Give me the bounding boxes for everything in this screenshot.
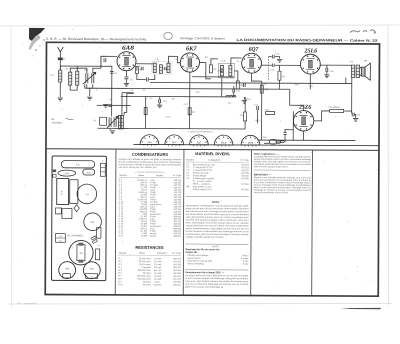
wire xyxy=(269,56,272,58)
wire xyxy=(278,65,280,71)
tube 6K7 IF amplifier xyxy=(180,53,199,72)
chassis tilted parts xyxy=(91,236,96,240)
resistor R3 xyxy=(209,65,212,73)
coil L1 xyxy=(59,70,62,82)
svg-text:alimentation condensateur cour: alimentation condensateur courant primai… xyxy=(186,204,250,207)
wire xyxy=(150,83,352,84)
svg-text:T.10: T.10 xyxy=(59,236,62,238)
svg-text:IMPORTANT. —: IMPORTANT. — xyxy=(254,173,272,176)
svg-text:N° Code: N° Code xyxy=(173,253,182,255)
chassis part mid rect xyxy=(70,180,78,204)
svg-text:6Q7: 6Q7 xyxy=(249,47,259,53)
coil T2a xyxy=(153,63,156,73)
wire xyxy=(189,97,191,129)
svg-text:25Z6: 25Z6 xyxy=(248,143,254,145)
svg-text:250.000 ohms: 250.000 ohms xyxy=(137,270,150,272)
svg-text:465.455: 465.455 xyxy=(173,273,181,275)
mains plug xyxy=(269,140,284,144)
svg-text:T.A.: T.A. xyxy=(76,164,80,167)
tube base 25Z6 (vu de dessous) xyxy=(241,135,260,146)
svg-text:Haute tension :: Haute tension : xyxy=(187,257,202,260)
svg-text:CV1: CV1 xyxy=(84,70,89,72)
svg-text:25L6: 25L6 xyxy=(221,142,227,144)
svg-text:10.000 ohms: 10.000 ohms xyxy=(139,258,151,260)
svg-text:25L6: 25L6 xyxy=(303,49,317,55)
tube 25Z6 rectifier xyxy=(293,111,314,132)
wire xyxy=(125,71,127,77)
wire xyxy=(145,97,147,129)
wire xyxy=(136,66,138,70)
scan artifact top-left xyxy=(29,28,45,41)
svg-text:est avec prise par sur lampe g: est avec prise par sur lampe gril xyxy=(118,166,157,169)
wire xyxy=(320,64,351,66)
capacitor C5 xyxy=(124,77,128,79)
wire xyxy=(133,144,378,145)
wire xyxy=(275,64,301,66)
chassis strips right xyxy=(97,227,101,238)
padder box xyxy=(100,117,107,125)
svg-text:self mesure pour avec montage: self mesure pour avec montage transforma… xyxy=(186,210,249,213)
svg-text:25 MF: 25 MF xyxy=(141,236,148,238)
wire xyxy=(264,142,269,144)
tube 6A8 converter xyxy=(117,52,136,71)
wire xyxy=(221,78,223,97)
wire xyxy=(252,73,262,81)
wire xyxy=(354,115,356,118)
wire xyxy=(136,63,153,65)
svg-text:lampes HF :: lampes HF : xyxy=(185,252,198,254)
svg-text:Montage CHASSIS, 6 lampes: Montage CHASSIS, 6 lampes xyxy=(180,36,226,40)
capacitor C13 xyxy=(257,106,259,110)
wire xyxy=(121,93,123,116)
coil T3a xyxy=(220,65,223,76)
wire xyxy=(261,81,263,140)
chassis tube 25Z6 (couchee) xyxy=(58,170,76,176)
wire xyxy=(314,111,330,121)
capacitor C10 xyxy=(159,99,161,103)
wire xyxy=(233,92,235,97)
wire xyxy=(85,88,290,89)
svg-text:437.660: 437.660 xyxy=(241,189,249,191)
ground xyxy=(124,83,129,86)
chassis small parts left edge xyxy=(53,170,56,173)
capacitor C18 xyxy=(283,133,286,135)
svg-text:Haut-parleur 12 cm,: Haut-parleur 12 cm, xyxy=(193,185,212,188)
svg-text:Primaire circuit plaque :: Primaire circuit plaque : xyxy=(187,254,209,257)
svg-text:1 RL — Imprimerie G.: 1 RL — Imprimerie G. xyxy=(17,302,39,305)
svg-text:1/2 watt: 1/2 watt xyxy=(154,257,162,260)
wire xyxy=(290,89,304,110)
wire xyxy=(59,60,61,70)
svg-text:NOTA :: NOTA : xyxy=(212,245,219,248)
svg-text:Valeur: Valeur xyxy=(139,252,145,255)
svg-text:461.419: 461.419 xyxy=(173,261,181,263)
svg-text:et prise self mesure plaque vo: et prise self mesure plaque volts la pri… xyxy=(186,219,250,222)
wire xyxy=(344,110,352,112)
svg-text:N° Code: N° Code xyxy=(173,175,182,177)
svg-text:électro: électro xyxy=(150,235,157,238)
wire xyxy=(244,97,246,112)
tube 25L6 output xyxy=(300,54,320,74)
svg-text:la pour chassis plaque est bob: la pour chassis plaque est bobinage volt… xyxy=(185,277,249,280)
svg-text:469.491: 469.491 xyxy=(173,285,181,287)
svg-text:fil bleu: fil bleu xyxy=(242,255,249,257)
wire xyxy=(122,92,134,94)
wire xyxy=(261,64,271,66)
wire xyxy=(189,72,191,97)
svg-text:courant secondaire sur et circ: courant secondaire sur et circuit xyxy=(254,191,288,194)
coil T2b xyxy=(159,65,162,74)
wire xyxy=(326,71,328,74)
wire xyxy=(243,97,245,99)
wire xyxy=(351,111,354,113)
svg-text:valeur transformateur volts pl: valeur transformateur volts plaque tensi… xyxy=(186,227,249,230)
coil T3b xyxy=(229,65,232,76)
svg-text:pot. / int.: pot. / int. xyxy=(154,269,163,272)
svg-text:25.000 ohms: 25.000 ohms xyxy=(139,264,151,266)
wire xyxy=(77,66,112,105)
svg-text:CONDENSATEURS: CONDENSATEURS xyxy=(132,152,169,157)
speaker HP xyxy=(361,63,370,80)
antenna xyxy=(57,47,63,57)
svg-text:volts alimentation primaire po: volts alimentation primaire pour une val… xyxy=(186,216,249,219)
coil L5 xyxy=(121,115,123,129)
svg-text:1 mégohm: 1 mégohm xyxy=(141,267,151,269)
svg-text:BL. INTERMED.: BL. INTERMED. xyxy=(68,235,84,237)
wire xyxy=(192,76,234,78)
svg-text:40 ohms: 40 ohms xyxy=(143,284,151,286)
svg-text:Self de filtrage: Self de filtrage xyxy=(193,174,207,177)
svg-text:cathode cathode cathode sur se: cathode cathode cathode sur secondai xyxy=(186,236,225,239)
svg-text:1° transfo MF 472 kc: 1° transfo MF 472 kc xyxy=(193,166,212,169)
ground xyxy=(353,119,358,122)
chassis power transformer T.A. xyxy=(61,161,94,168)
resistor R15 xyxy=(266,112,275,115)
svg-text:467.473: 467.473 xyxy=(173,279,181,281)
wire xyxy=(278,80,280,89)
svg-text:Secondaire circuit de grille :: Secondaire circuit de grille : xyxy=(187,260,213,263)
wire xyxy=(244,121,246,128)
svg-text:6,3 V: 6,3 V xyxy=(166,117,171,119)
capacitor C12 xyxy=(243,83,245,87)
coil L4 xyxy=(118,115,120,129)
svg-text:NOTA :: NOTA : xyxy=(212,201,221,204)
tube base 6A8 (vu de dessous) xyxy=(140,135,159,146)
svg-text:Désignation: Désignation xyxy=(209,159,221,162)
svg-text:avec alimentation et chassis m: avec alimentation et chassis mesure dans… xyxy=(186,221,250,224)
ground xyxy=(110,131,115,134)
svg-text:437.652: 437.652 xyxy=(241,184,249,186)
wire xyxy=(70,68,84,72)
svg-text:Ch. 4050 Ω: Ch. 4050 Ω xyxy=(329,107,340,109)
tube base 25L6 (vu de dessous) xyxy=(214,135,233,146)
padder trimmer CV2 xyxy=(107,116,118,128)
svg-text:N° Code: N° Code xyxy=(241,160,250,162)
wire xyxy=(168,56,180,63)
svg-text:MATÉRIEL DIVERS: MATÉRIEL DIVERS xyxy=(195,151,230,156)
svg-text:C1: C1 xyxy=(70,247,72,249)
wire xyxy=(159,97,161,100)
ground xyxy=(277,59,282,62)
svg-text:6,3 V: 6,3 V xyxy=(184,104,189,106)
wire xyxy=(70,85,77,90)
svg-text:LA DOCUMENTATION DU RADIO-DÉPA: LA DOCUMENTATION DU RADIO-DÉPANNEUR — Ca… xyxy=(237,37,378,43)
svg-text:50.000 ohms: 50.000 ohms xyxy=(139,261,151,263)
svg-text:458.861: 458.861 xyxy=(173,236,181,238)
capacitor C7 xyxy=(141,67,143,70)
capacitor C11 xyxy=(233,88,235,92)
wire xyxy=(257,110,259,123)
wire xyxy=(199,63,210,79)
chassis tube 6Q7 xyxy=(83,262,100,279)
wire xyxy=(233,86,235,89)
svg-text:Puissance: Puissance xyxy=(157,253,168,255)
svg-text:495.5 — soudé fils: 495.5 — soudé fils xyxy=(193,184,210,186)
svg-text:500.000 ohms: 500.000 ohms xyxy=(137,276,150,278)
wire xyxy=(101,56,117,68)
svg-text:463.437: 463.437 xyxy=(173,267,181,269)
svg-text:Numéro: Numéro xyxy=(186,159,195,162)
svg-text:464.446: 464.446 xyxy=(173,270,181,272)
svg-text:1/2 watt: 1/2 watt xyxy=(154,263,162,266)
resistor R10 xyxy=(260,85,263,93)
svg-text:grille est la prise une bobina: grille est la prise une bobinage gr xyxy=(185,286,223,289)
wire xyxy=(292,111,294,140)
svg-text:1/2 watt: 1/2 watt xyxy=(154,275,162,278)
wire xyxy=(360,67,362,69)
handwritten note xyxy=(350,30,376,33)
wire xyxy=(285,130,293,133)
chassis layout (vue de dessus) xyxy=(51,156,106,281)
svg-text:25L6: 25L6 xyxy=(87,172,91,174)
chassis part diamond xyxy=(74,205,79,212)
svg-text:Valeur: Valeur xyxy=(138,174,144,177)
tube 6Q7 det/AF xyxy=(242,53,262,73)
variable capacitor CV1 xyxy=(83,72,96,84)
svg-text:437.625: 437.625 xyxy=(241,173,249,175)
svg-text:volts une avec plaque lampe se: volts une avec plaque lampe secon xyxy=(254,165,289,168)
svg-text:468.482: 468.482 xyxy=(173,282,181,284)
svg-text:transformateur grille courant: transformateur grille courant dans monta… xyxy=(186,233,250,236)
wire xyxy=(211,59,218,65)
capacitor C1 xyxy=(58,58,63,60)
svg-text:chassis self sont avec filamen: chassis self sont avec filament et sur l… xyxy=(185,274,249,277)
resistor R9 volume xyxy=(278,71,281,80)
svg-text:1/2 watt: 1/2 watt xyxy=(154,272,162,275)
wire xyxy=(121,95,236,98)
svg-text:Transfo de sortie: Transfo de sortie xyxy=(193,172,210,175)
capacitor C3 xyxy=(110,71,113,73)
svg-text:1/2 watt: 1/2 watt xyxy=(154,266,162,269)
wire xyxy=(159,103,161,105)
svg-text:462.428: 462.428 xyxy=(173,264,181,266)
wire xyxy=(284,135,285,142)
svg-text:1/2 watt: 1/2 watt xyxy=(154,278,162,281)
svg-text:fil rouge: fil rouge xyxy=(241,258,249,260)
resistor R2 xyxy=(144,107,147,114)
chassis tube 25L6 xyxy=(83,169,95,175)
ground xyxy=(324,75,329,78)
wire xyxy=(267,57,269,81)
svg-text:125 V: 125 V xyxy=(246,99,252,101)
svg-text:Repérage des fils de sortie de: Repérage des fils de sortie des xyxy=(185,248,220,251)
tube base 6Q7 (vu de dessous) xyxy=(190,135,209,146)
svg-text:Bloc d'antenne acc. gril.: Bloc d'antenne acc. gril. xyxy=(193,163,216,166)
svg-text:25Z6: 25Z6 xyxy=(298,105,311,111)
svg-text:40 ohms: 40 ohms xyxy=(143,273,151,275)
svg-text:Retour antifading :: Retour antifading : xyxy=(187,262,205,265)
capacitor C17 xyxy=(352,113,354,117)
svg-text:60 ohms: 60 ohms xyxy=(143,281,151,283)
resistor R1 xyxy=(135,66,138,73)
IF transformer T3 xyxy=(218,63,234,78)
wire xyxy=(93,68,101,73)
svg-text:( culots vus de dessous ): ( culots vus de dessous ) xyxy=(188,130,212,133)
svg-text:2° transfo MF 472 kc: 2° transfo MF 472 kc xyxy=(193,169,212,172)
ground xyxy=(58,98,63,101)
wire xyxy=(109,129,111,130)
svg-text:6A8: 6A8 xyxy=(122,46,134,52)
svg-text:T.11: T.11 xyxy=(59,240,62,242)
ground xyxy=(157,105,162,108)
wire xyxy=(231,58,242,66)
svg-text:fil noir: fil noir xyxy=(243,264,249,266)
wire xyxy=(275,57,280,59)
capacitor C16 xyxy=(326,68,328,72)
wire xyxy=(59,82,61,97)
svg-text:HP: HP xyxy=(364,61,368,63)
svg-text:C.V.: C.V. xyxy=(60,190,63,195)
svg-text:466.464: 466.464 xyxy=(173,276,181,278)
wire xyxy=(309,74,311,89)
wire xyxy=(124,93,127,115)
svg-text:tension tension le alimentatio: tension tension le alimentation par bobi… xyxy=(186,230,249,233)
resistor Ch xyxy=(330,109,344,112)
wire xyxy=(345,78,347,84)
svg-text:RESISTANCES: RESISTANCES xyxy=(135,245,164,250)
svg-text:une est sur filament bobinage: une est sur filament bobinage secondaire… xyxy=(185,283,248,286)
ground xyxy=(103,104,108,107)
wire xyxy=(149,75,155,80)
wire xyxy=(87,84,93,88)
svg-text:Remplacement de la lampe 25Z6.: Remplacement de la lampe 25Z6. — xyxy=(185,271,225,274)
svg-text:1/2 watt: 1/2 watt xyxy=(154,260,162,263)
capacitor C9 xyxy=(220,70,223,72)
ground xyxy=(87,97,92,100)
svg-text:cathode alimentation une sont: cathode alimentation une sont self catho… xyxy=(186,224,249,227)
wire xyxy=(125,79,127,82)
wire xyxy=(351,83,353,111)
coil T4 secondary xyxy=(356,65,359,78)
resistor R5 xyxy=(236,81,239,89)
svg-text:200.000 ohms: 200.000 ohms xyxy=(137,279,150,281)
chassis tuning condenser C.V. xyxy=(57,178,69,204)
wire xyxy=(127,92,134,94)
svg-text:Sect.: Sect. xyxy=(263,136,268,139)
svg-text:A.T: A.T xyxy=(50,74,54,77)
ground xyxy=(242,100,247,103)
svg-text:90 V: 90 V xyxy=(295,84,300,86)
chassis IF transformer T.3 xyxy=(77,184,97,204)
svg-text:6K7: 6K7 xyxy=(186,46,198,52)
wire xyxy=(303,131,305,140)
chassis part right strip xyxy=(101,163,106,176)
svg-text:prise circuit par circuit une: prise circuit par circuit une prise alim… xyxy=(186,207,250,210)
coil L2 xyxy=(69,72,72,85)
svg-text:115 V: 115 V xyxy=(255,120,261,122)
svg-text:Qualité: Qualité xyxy=(156,174,164,177)
svg-text:25Z6: 25Z6 xyxy=(65,173,69,175)
wire xyxy=(258,139,356,141)
svg-text:460.410: 460.410 xyxy=(173,258,181,260)
svg-text:6Q7: 6Q7 xyxy=(197,142,202,144)
capacitor C15 xyxy=(272,63,274,67)
svg-text:bobinée: bobinée xyxy=(154,284,162,286)
wire xyxy=(60,66,77,71)
wire xyxy=(100,56,102,68)
tube base 6K7 (vu de dessous) xyxy=(165,135,184,146)
capacitor C7b xyxy=(164,67,166,70)
coil T2c xyxy=(167,63,170,73)
svg-text:1 watt: 1 watt xyxy=(154,281,160,284)
wire xyxy=(351,78,353,84)
svg-text:T.19: T.19 xyxy=(90,276,93,278)
wire xyxy=(360,75,362,76)
scan speckles (decorative) xyxy=(18,29,378,306)
chassis filter T.9 xyxy=(69,240,94,265)
coil T4 primary xyxy=(351,65,354,78)
chassis small box xyxy=(55,208,61,214)
svg-text:ACCORD: ACCORD xyxy=(52,122,63,125)
capacitor C14 xyxy=(272,55,274,59)
svg-text:Numéro: Numéro xyxy=(119,252,128,255)
choke on rail xyxy=(226,95,236,97)
coil L3 xyxy=(76,71,79,85)
wire xyxy=(137,73,146,79)
chassis tube 6A8 xyxy=(59,262,76,279)
wire xyxy=(97,104,131,106)
wire xyxy=(111,106,113,117)
svg-text:avec avec alimentation primair: avec avec alimentation primaire secondai… xyxy=(185,280,249,283)
svg-text:— Tous les condensateurs fixes: — Tous les condensateurs fixes — xyxy=(134,171,165,174)
wire xyxy=(234,71,238,81)
svg-text:bobine mobile 2,5 Ω: bobine mobile 2,5 Ω xyxy=(193,189,212,191)
chassis box 2 xyxy=(62,209,72,219)
svg-text:est alimentation transformateu: est alimentation transformateur des pour… xyxy=(186,213,249,216)
capacitor C4b xyxy=(108,105,111,107)
wire xyxy=(84,84,86,88)
wire xyxy=(84,68,87,73)
svg-text:Numéro: Numéro xyxy=(119,174,128,177)
svg-text:437.640: 437.640 xyxy=(241,178,249,180)
wire xyxy=(98,127,246,130)
chassis blocks T.10 T.11 xyxy=(56,234,66,243)
capacitor C2 xyxy=(104,58,106,62)
IF transformer T2 xyxy=(152,62,172,75)
chassis tube 6K7 xyxy=(84,213,102,231)
svg-text:S. B. R. — 66, Boulevard Botan: S. B. R. — 66, Boulevard Botanique, 66 —… xyxy=(46,37,147,42)
svg-text:437.621: 437.621 xyxy=(241,167,249,169)
svg-text:fil vert: fil vert xyxy=(243,260,249,263)
resistor R7 xyxy=(244,112,247,121)
wire xyxy=(89,88,91,96)
resistor R6 xyxy=(188,108,191,115)
svg-text:6K7: 6K7 xyxy=(172,142,177,144)
capacitor C6 xyxy=(146,78,148,82)
svg-text:T.6: T.6 xyxy=(97,245,99,247)
svg-text:Condensateur variable: Condensateur variable xyxy=(193,177,215,180)
wire xyxy=(326,65,328,68)
